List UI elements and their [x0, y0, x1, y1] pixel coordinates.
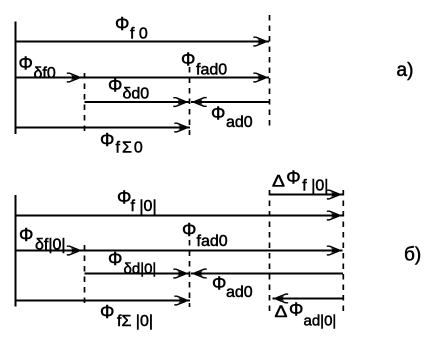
svg-text:Φ: Φ [289, 300, 303, 320]
svg-text:δf|0|: δf|0| [35, 237, 66, 254]
arrow Phi_ad0 (line 3b right part, pointing left from dashed D) [191, 273, 343, 275]
arrow Phi_deltad|0| (line 3b left part) [85, 273, 190, 275]
svg-text:f |0|: f |0| [131, 198, 157, 215]
svg-text:б): б) [404, 245, 421, 266]
label DeltaPhi_ad|0| [275, 300, 337, 330]
label DeltaPhi_f|0| [272, 168, 328, 195]
svg-text:Δ: Δ [272, 171, 285, 190]
svg-text:Φ: Φ [19, 225, 33, 245]
label Phi_deltad|0| [108, 249, 156, 278]
svg-text:Φ: Φ [212, 274, 226, 294]
svg-text:Δ: Δ [275, 302, 288, 321]
arrow DeltaPhi_f|0| (top increment arrow) [270, 194, 343, 196]
label Phi_fad0 (diagram b) [182, 220, 228, 250]
arrow Phi_fSigma0 (line 4a) [15, 127, 190, 129]
svg-text:Φ: Φ [108, 76, 122, 96]
dashed line C-b (x=269.5) [269, 190, 271, 312]
svg-text:Φ: Φ [19, 54, 33, 74]
label Phi_deltaf|0| [19, 225, 66, 254]
svg-text:Φ: Φ [181, 50, 195, 70]
label Phi_fad0 [181, 50, 227, 79]
dashed line D (x=343.3) [342, 190, 344, 312]
axis a (vertical reference line) [15, 22, 17, 135]
svg-text:fad0: fad0 [196, 62, 227, 79]
svg-text:ad0: ad0 [226, 114, 253, 131]
svg-text:Φ: Φ [211, 104, 225, 124]
label Phi_f0 [115, 14, 148, 43]
label Phi_deltad0 [108, 76, 149, 103]
axis b (vertical reference line) [15, 195, 17, 307]
svg-text:Φ: Φ [108, 249, 122, 269]
svg-text:ad0: ad0 [226, 284, 253, 301]
svg-text:Φ: Φ [182, 220, 196, 240]
svg-text:Φ: Φ [100, 302, 114, 322]
label Phi_ad0 (diagram b) [212, 274, 253, 302]
svg-text:f |0|: f |0| [302, 178, 328, 195]
label Phi_ad0 [211, 104, 253, 132]
arrow Phi_f0 (line 1a) [15, 41, 269, 43]
svg-text:Φ: Φ [117, 188, 131, 208]
svg-text:fΣ0: fΣ0 [116, 140, 145, 157]
dashed line C (x=269.5) [269, 15, 271, 129]
arrow Phi_deltaf|0| (line 2b, first segment with mid arrowhead) [15, 250, 83, 252]
dashed line A (x=84.5) [84, 73, 86, 133]
dashed line B (x=189.5) [189, 67, 191, 135]
arrow DeltaPhi_ad|0| (line 5b, pointing left from dashed D to dashed C) [273, 298, 344, 300]
svg-text:δd|0|: δd|0| [124, 261, 157, 278]
svg-text:fΣ |0|: fΣ |0| [117, 313, 153, 330]
arrow Phi_f|0| (line 1b) [15, 215, 343, 217]
arrow Phi_fSigma|0| (line 4b) [15, 300, 190, 302]
label Phi_deltaf0 [19, 54, 56, 83]
svg-text:ad|0|: ad|0| [304, 313, 337, 330]
arrow Phi_fad0 continuation (line 2b to dashed D) [81, 250, 343, 252]
dashed line A-b (x=84.5) [84, 245, 86, 306]
svg-text:δd0: δd0 [123, 86, 150, 103]
label Phi_fSigma0 [100, 130, 145, 157]
svg-text:δf0: δf0 [34, 65, 56, 82]
dashed line B-b (x=189.5) [189, 240, 191, 307]
arrow Phi_deltaf0 (line 2a, first segment with mid arrowhead) [15, 77, 83, 79]
arrow Phi_fad0 (line 2a, continuation to dashed C) [81, 77, 270, 79]
label Phi_f|0| [117, 188, 157, 216]
svg-text:f 0: f 0 [130, 26, 148, 43]
svg-text:fad0: fad0 [197, 233, 228, 250]
svg-text:Φ: Φ [286, 168, 300, 188]
svg-text:а): а) [397, 60, 414, 81]
svg-text:Φ: Φ [115, 14, 129, 34]
svg-text:Φ: Φ [100, 130, 114, 150]
arrow Phi_ad0 (line 3a right part, pointing left) [191, 101, 270, 103]
label Phi_fSigma|0| [100, 302, 153, 330]
arrow Phi_deltad0 (line 3a left part) [85, 101, 190, 103]
